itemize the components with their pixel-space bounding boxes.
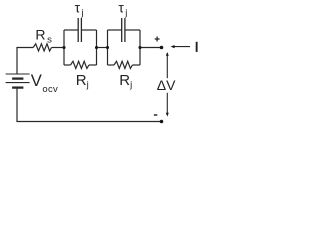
battery Vocv plate long top [6, 73, 30, 75]
wire battery bottom lead [16, 88, 18, 122]
delta V arrow upper shaft [166, 53, 168, 78]
wire Rs to node A [52, 47, 65, 49]
resistor Rj (block 2) [114, 61, 132, 68]
svg-text:R: R [76, 72, 87, 89]
capacitor C1 plate left [77, 18, 79, 42]
RC block 2 top edge right part [125, 29, 140, 31]
RC block 1 top edge right part [81, 29, 96, 31]
minus sign [154, 114, 157, 116]
wire bottom horizontal [16, 121, 161, 123]
battery Vocv plate short thick bottom [12, 86, 23, 88]
node dot block1 left [62, 46, 65, 49]
RC block 1 top edge left part [64, 29, 78, 31]
plus sign horizontal stroke [155, 38, 160, 40]
capacitor C2 plate right [124, 18, 126, 42]
RC block 2 top edge left part [108, 29, 122, 31]
svg-text:ΔV: ΔV [157, 77, 176, 93]
svg-text:j: j [86, 80, 89, 91]
node dot block1 right [95, 46, 98, 49]
RC block 2 right edge [139, 30, 141, 65]
battery Vocv plate short thick upper [12, 77, 23, 79]
battery Vocv plate long lower [6, 82, 30, 84]
capacitor C1 plate right [80, 18, 82, 42]
svg-text:R: R [119, 72, 130, 89]
svg-text:R: R [35, 27, 45, 43]
delta V arrow lower shaft [166, 93, 168, 114]
plus sign vertical stroke [156, 37, 158, 42]
RC block 1 left edge [63, 30, 65, 65]
RC block 1 bottom edge left part [64, 64, 71, 66]
delta V arrowhead up [166, 52, 169, 56]
svg-text:s: s [47, 34, 52, 45]
svg-text:j: j [124, 7, 127, 18]
svg-text:ocv: ocv [42, 84, 58, 95]
RC block 1 right edge [96, 30, 98, 65]
RC block 2 bottom edge left part [108, 64, 115, 66]
wire left vertical (battery top lead) [16, 48, 18, 75]
svg-text:τ: τ [118, 0, 124, 16]
wire between block 1 and block 2 [97, 47, 108, 49]
delta V arrowhead down [166, 113, 169, 117]
capacitor C2 plate left [121, 18, 123, 42]
minus terminal dot [160, 120, 164, 124]
wire top segment A (battery to Rs) [16, 47, 33, 49]
svg-text:τ: τ [75, 0, 81, 16]
RC block 2 bottom edge right part [132, 64, 140, 66]
svg-text:V: V [31, 71, 42, 90]
current arrow I head (points left) [171, 45, 175, 48]
resistor Rs [33, 44, 51, 51]
resistor Rj (block 1) [71, 61, 89, 68]
svg-text:j: j [129, 80, 132, 91]
wire block 2 to plus terminal [140, 47, 162, 49]
node dot block2 right [138, 46, 141, 49]
RC block 1 bottom edge right part [89, 64, 97, 66]
current arrow I shaft [173, 46, 190, 48]
node dot block2 left [106, 46, 109, 49]
label I [196, 42, 198, 52]
svg-text:j: j [80, 7, 83, 18]
plus terminal dot [160, 46, 164, 50]
RC block 2 left edge [107, 30, 109, 65]
